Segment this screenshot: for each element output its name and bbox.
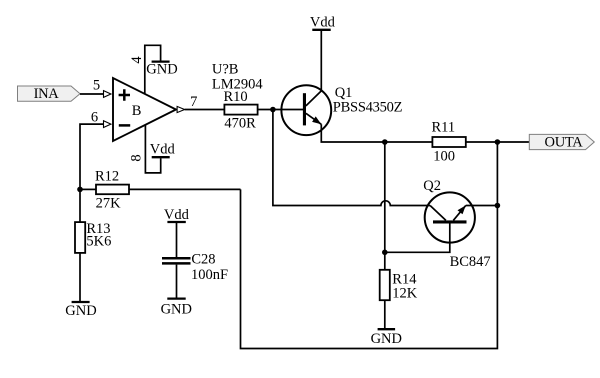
svg-text:27K: 27K <box>96 195 122 211</box>
wire Q2 base down and left to R14 node <box>385 222 450 252</box>
svg-text:BC847: BC847 <box>450 254 491 270</box>
svg-text:GND: GND <box>371 331 402 347</box>
wire node to R12 <box>80 188 96 190</box>
wire R14 to ground <box>384 300 386 328</box>
pin 6 input marker <box>104 121 111 128</box>
wire from node down and across (hop) to Q2 collector <box>273 110 430 206</box>
ground symbol at op-amp pin 4 <box>146 62 177 78</box>
ground symbol below R14 <box>371 329 402 347</box>
svg-text:GND: GND <box>65 303 96 319</box>
resistor R14 <box>380 270 418 302</box>
wire Vdd to C28 <box>176 222 178 257</box>
svg-text:PBSS4350Z: PBSS4350Z <box>333 100 403 116</box>
transistor Q2 <box>425 192 475 242</box>
transistor Q1 <box>281 85 331 135</box>
resistor R11 <box>432 120 466 165</box>
svg-text:R10: R10 <box>224 89 248 105</box>
wire pin 6 left and down to feedback node <box>80 124 104 189</box>
wire R10 to Q1 base <box>258 109 303 111</box>
wire R13 to ground <box>79 253 81 301</box>
svg-text:5K6: 5K6 <box>86 234 111 250</box>
svg-text:R11: R11 <box>432 120 456 136</box>
svg-text:GND: GND <box>146 62 177 78</box>
port OUTA <box>529 134 594 150</box>
power symbol Vdd at op-amp pin 8 <box>150 141 176 157</box>
op-amp inverting - symbol <box>119 124 130 127</box>
op-amp non-inverting + symbol <box>119 89 130 100</box>
resistor R12 <box>95 168 129 211</box>
svg-text:Q2: Q2 <box>423 178 441 194</box>
wire R14 top lead <box>384 252 386 269</box>
power symbol Vdd above C28 <box>164 207 190 223</box>
svg-text:Q1: Q1 <box>335 85 353 101</box>
svg-text:R12: R12 <box>95 168 119 184</box>
node junction Q2 emitter / feedback column <box>495 203 501 209</box>
svg-text:GND: GND <box>161 302 192 318</box>
wire R12 to feedback column <box>129 188 241 190</box>
wire INA to op-amp pin 5 <box>80 93 104 95</box>
svg-text:100: 100 <box>433 148 455 164</box>
pin 7 output marker <box>177 106 185 112</box>
ground symbol below R13 <box>65 302 96 319</box>
svg-text:7: 7 <box>190 94 197 110</box>
node junction Q2 base / R14 <box>382 250 388 256</box>
ground symbol below C28 <box>161 299 192 318</box>
svg-text:OUTA: OUTA <box>545 135 584 151</box>
wire node down to R13 <box>79 189 81 222</box>
svg-text:INA: INA <box>34 86 60 102</box>
wire branch from Q1 emitter node down to Q2 base node <box>384 142 386 252</box>
op-amp U?B triangle <box>113 78 176 141</box>
svg-text:8: 8 <box>129 154 145 161</box>
capacitor C28 <box>162 252 228 284</box>
pin 5 input marker <box>104 91 111 98</box>
op-amp pin 4 wire to ground <box>145 45 161 94</box>
svg-text:5: 5 <box>93 78 100 94</box>
wire Q2 emitter to feedback column <box>466 205 498 207</box>
resistor R10 <box>224 89 258 132</box>
node junction pin6 / R12 / R13 <box>77 187 83 193</box>
wire R11 to OUTA <box>466 141 530 143</box>
wire C28 to ground <box>176 265 178 298</box>
wire Q1 emitter down to R11 rail <box>321 124 432 142</box>
svg-text:12K: 12K <box>392 286 418 302</box>
svg-text:Vdd: Vdd <box>164 207 190 223</box>
svg-text:470R: 470R <box>224 116 256 132</box>
op-amp pin 8 wire to Vdd <box>145 125 160 173</box>
node junction R10 / Q2-collector branch <box>270 107 276 113</box>
resistor R13 <box>75 221 111 253</box>
wire Q1 collector to Vdd <box>320 30 322 91</box>
node junction Q1 emitter / R14 branch <box>382 139 388 145</box>
svg-text:U?B: U?B <box>212 61 239 77</box>
wire pin 7 to R10 <box>185 109 225 111</box>
node junction at OUTA / feedback column <box>495 139 501 145</box>
feedback wire: output column down, bottom run, up to R12 <box>241 142 498 349</box>
svg-text:B: B <box>132 103 142 119</box>
svg-text:C28: C28 <box>191 252 215 268</box>
svg-text:4: 4 <box>129 56 145 64</box>
svg-text:100nF: 100nF <box>191 267 228 283</box>
svg-text:6: 6 <box>91 109 98 125</box>
svg-text:Vdd: Vdd <box>310 15 336 31</box>
port INA <box>18 86 81 102</box>
power symbol Vdd at Q1 collector <box>310 15 336 31</box>
svg-text:Vdd: Vdd <box>150 141 176 157</box>
